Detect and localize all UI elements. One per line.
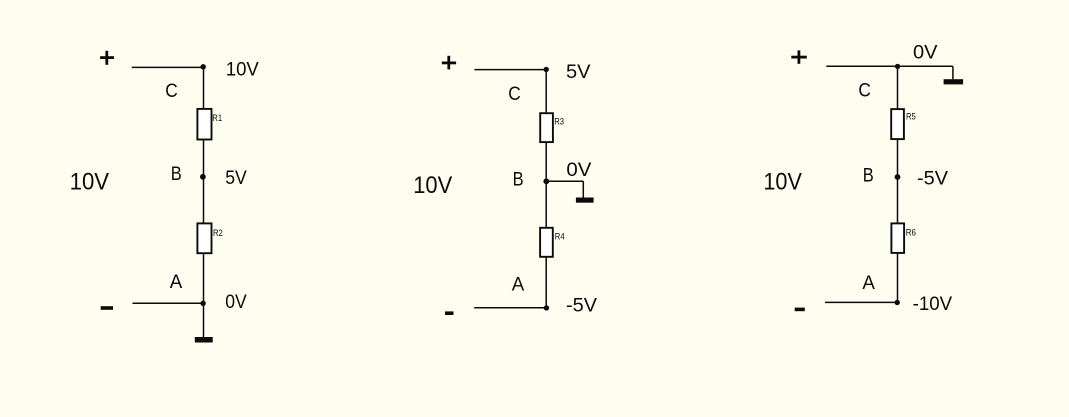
minus terminal symbol (right circuit) (795, 308, 805, 312)
svg-text:0V: 0V (566, 160, 591, 181)
svg-text:10V: 10V (413, 172, 452, 199)
svg-text:C: C (508, 84, 521, 105)
svg-text:R3: R3 (554, 117, 564, 128)
node top 5V (544, 67, 549, 72)
wire vertical main (middle circuit) (545, 70, 547, 308)
wire from + through top node to ground stub (right) (826, 65, 953, 67)
node B (right) (895, 174, 901, 180)
svg-text:0V: 0V (913, 43, 938, 64)
svg-text:5V: 5V (225, 168, 247, 189)
svg-text:A: A (512, 274, 525, 295)
svg-text:A: A (170, 272, 183, 293)
svg-text:10V: 10V (226, 60, 259, 81)
svg-text:-10V: -10V (913, 294, 953, 315)
plus terminal symbol (left circuit) (100, 51, 114, 65)
wire down to top ground (right) (952, 66, 954, 79)
ground symbol (middle circuit) (576, 198, 594, 203)
wire from - to bottom node (right) (825, 301, 898, 303)
svg-text:C: C (165, 81, 178, 102)
svg-text:10V: 10V (763, 168, 802, 195)
svg-text:R2: R2 (213, 228, 223, 239)
plus terminal symbol (right circuit) (791, 50, 807, 63)
node A -5V (middle) (544, 305, 549, 310)
svg-text:R6: R6 (906, 228, 916, 239)
wire from - to bottom node (133, 302, 204, 304)
svg-text:A: A (862, 273, 875, 294)
wire from + to top node (132, 66, 204, 68)
svg-text:R1: R1 (212, 113, 222, 124)
minus terminal symbol (left circuit) (101, 306, 113, 310)
svg-text:B: B (863, 166, 874, 187)
resistor R3 (540, 113, 553, 142)
plus terminal symbol (middle circuit) (442, 56, 456, 70)
resistor R2 (197, 223, 211, 253)
wire from - to bottom node (middle) (474, 307, 546, 309)
node B (left) (200, 174, 206, 180)
node top 10V (201, 64, 206, 69)
node top 0V (right) (895, 64, 900, 69)
svg-text:C: C (858, 81, 871, 102)
svg-text:R5: R5 (906, 112, 916, 123)
node A 0V (200, 301, 205, 306)
wire vertical main (right circuit) (897, 66, 899, 302)
resistor R5 (891, 109, 904, 139)
svg-text:0V: 0V (225, 292, 247, 313)
svg-text:B: B (513, 169, 524, 190)
node B (middle) (543, 178, 549, 184)
wire node B to ground (middle) (546, 180, 583, 182)
resistor R1 (197, 109, 211, 140)
svg-text:5V: 5V (566, 62, 591, 83)
ground symbol (left circuit) (195, 337, 213, 343)
minus terminal symbol (middle circuit) (445, 311, 454, 315)
resistor R4 (540, 228, 553, 257)
resistor R6 (891, 223, 904, 253)
svg-text:-5V: -5V (566, 296, 597, 317)
wire from + to top node (middle) (475, 69, 547, 71)
svg-text:10V: 10V (70, 169, 110, 196)
ground symbol (right circuit, top) (944, 79, 964, 84)
node A -10V (right) (895, 300, 900, 305)
svg-text:-5V: -5V (917, 168, 948, 189)
wire vertical main (left circuit) (203, 67, 205, 337)
svg-text:B: B (171, 164, 182, 185)
svg-text:R4: R4 (555, 232, 565, 243)
